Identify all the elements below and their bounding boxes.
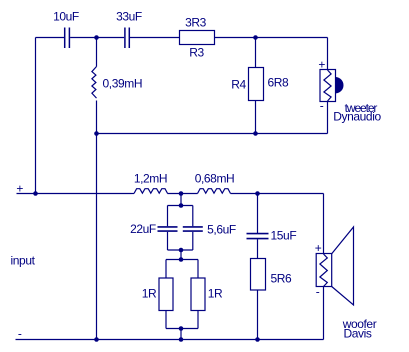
wire: top rail between 10uF and 33uF: [70, 37, 124, 39]
svg-text:+: +: [318, 58, 325, 72]
svg-text:33uF: 33uF: [116, 10, 142, 24]
node: resistor pair bottom: [179, 326, 184, 331]
resistor R4: [249, 68, 264, 101]
node: resistor pair top: [179, 257, 184, 262]
node: top rail / R4 junction: [253, 35, 258, 40]
node: bottom rail / 5R6 branch: [255, 337, 260, 342]
svg-text:1R: 1R: [208, 287, 223, 301]
svg-text:10uF: 10uF: [53, 10, 79, 24]
wire: woofer bottom lead: [323, 287, 325, 340]
svg-text:-: -: [18, 327, 22, 341]
woofer Davis driver: [316, 227, 353, 305]
wire: tweeter top rail left segment: [36, 37, 65, 39]
wire: between 0,68mH and woofer corner: [231, 193, 324, 195]
capacitor 10uF: [65, 28, 70, 49]
svg-text:Davis: Davis: [343, 327, 371, 341]
svg-text:0,68mH: 0,68mH: [195, 172, 235, 186]
resistor 1R right: [191, 260, 205, 329]
node: top rail / 0,39mH junction: [94, 35, 99, 40]
svg-text:+: +: [315, 241, 322, 255]
inductor 0,68mH: [198, 189, 231, 194]
wire: shunt drop from main rail: [180, 194, 182, 206]
node: cap pair top: [179, 203, 184, 208]
tweeter Dynaudio driver: [320, 70, 343, 102]
wire: tweeter bottom rail: [97, 133, 328, 135]
node: main rail / shunt: [179, 191, 184, 196]
svg-text:-: -: [320, 99, 324, 113]
node: bottom tweeter rail / inductor column: [94, 131, 99, 136]
svg-text:R3: R3: [189, 46, 204, 60]
svg-text:-: -: [316, 285, 320, 299]
node: bottom rail / shunt: [179, 337, 184, 342]
resistor R3: [180, 31, 215, 45]
wire: cap pair bottom bar: [168, 249, 193, 251]
svg-text:5,6uF: 5,6uF: [207, 223, 236, 237]
wire: between 1,2mH and node: [132, 193, 135, 195]
wire: bottom rail (input -): [16, 339, 324, 341]
inductor 1,2mH: [134, 189, 168, 194]
svg-text:1R: 1R: [142, 287, 157, 301]
svg-text:+: +: [16, 182, 23, 196]
svg-text:input: input: [11, 254, 36, 268]
wire: R4 top lead: [255, 38, 257, 68]
node: main rail / 15uF branch: [255, 191, 260, 196]
capacitor 22uF: [158, 206, 178, 251]
wire: resistor pair bottom bar: [166, 328, 198, 330]
wire: shunt drop to bottom rail: [180, 329, 182, 340]
wire: R4 bottom lead: [255, 101, 257, 134]
svg-text:15uF: 15uF: [271, 229, 297, 243]
svg-text:0,39mH: 0,39mH: [103, 77, 143, 91]
wire: inductor column lower segment: [96, 101, 98, 340]
node: input + junction: [33, 191, 38, 196]
wire: 5R6 bottom lead: [257, 290, 259, 340]
svg-text:3R3: 3R3: [185, 16, 207, 30]
resistor 5R6: [251, 259, 266, 291]
svg-text:6R8: 6R8: [268, 76, 290, 90]
wire: tweeter top lead: [327, 38, 329, 70]
wire: woofer top lead: [323, 194, 325, 254]
wire: left input rail: [35, 38, 37, 194]
svg-text:Dynaudio: Dynaudio: [333, 110, 381, 124]
wire: 15uF top lead: [257, 194, 259, 234]
resistor 1R left: [159, 260, 173, 329]
svg-text:22uF: 22uF: [130, 222, 156, 236]
svg-text:1,2mH: 1,2mH: [134, 172, 167, 186]
svg-text:R4: R4: [231, 78, 246, 92]
wire: resistor pair top bar: [166, 259, 198, 261]
capacitor 33uF: [125, 28, 129, 49]
wire: link caps to resistors: [180, 250, 182, 260]
capacitor 15uF: [247, 234, 269, 239]
wire: inductor column upper segment: [96, 38, 98, 67]
wire: tweeter bottom lead: [327, 102, 329, 134]
node: bottom tweeter rail / R4: [253, 131, 258, 136]
wire: top rail between R3 and node: [215, 37, 328, 39]
node: cap pair bottom: [179, 248, 184, 253]
wire: cap pair top bar: [168, 205, 193, 207]
wire: top rail between 33uF and R3: [130, 37, 180, 39]
wire: between 15uF and 5R6: [257, 239, 259, 258]
svg-text:5R6: 5R6: [271, 272, 293, 286]
node: bottom rail / inductor column: [94, 337, 99, 342]
capacitor 5,6uF: [183, 206, 203, 251]
inductor 0,39mH: [92, 67, 97, 99]
wire: woofer main rail (input +): [17, 193, 132, 195]
